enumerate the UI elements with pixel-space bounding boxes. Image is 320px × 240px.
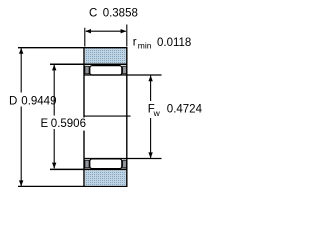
svg-text:w: w xyxy=(153,108,161,118)
svg-text:min: min xyxy=(138,40,152,50)
svg-text:E: E xyxy=(41,118,49,130)
cage section bottom-right xyxy=(123,160,127,168)
raceway top line with E extension xyxy=(50,63,127,65)
needle roller bottom xyxy=(90,159,122,169)
Fw arrow up xyxy=(148,75,152,81)
D dimension line lower segment xyxy=(20,107,22,187)
bore top line with Fw extension xyxy=(84,74,162,76)
svg-text:0.9449: 0.9449 xyxy=(21,96,56,108)
Fw dimension line upper segment xyxy=(150,76,152,101)
needle roller top xyxy=(90,66,122,75)
bore bottom line with Fw extension xyxy=(84,158,162,160)
outer ring top section blue fill xyxy=(85,49,126,64)
C arrow right xyxy=(121,29,127,33)
D dimension line upper segment xyxy=(20,48,22,92)
svg-text:r: r xyxy=(133,36,137,48)
outer ring OD top line with D extension xyxy=(18,47,128,49)
bearing outer ring left face (upper segment, broken by E label) xyxy=(83,48,85,118)
E dimension line lower segment xyxy=(53,129,55,168)
E arrow down xyxy=(52,163,56,169)
E arrow up xyxy=(52,65,56,71)
cage section top-right xyxy=(123,66,127,74)
svg-text:0.4724: 0.4724 xyxy=(167,103,203,115)
Fw dimension line lower segment xyxy=(150,118,152,158)
svg-text:D: D xyxy=(9,96,17,108)
svg-text:C: C xyxy=(89,8,97,20)
C dimension line xyxy=(86,30,126,32)
svg-text:0.3858: 0.3858 xyxy=(103,8,138,20)
C extension line left xyxy=(84,28,86,47)
bearing outer ring right face xyxy=(126,48,128,187)
outer ring bottom section blue fill xyxy=(85,170,126,185)
C extension line right xyxy=(126,25,128,47)
D arrow up xyxy=(19,48,23,54)
outer ring OD bottom line with D extension xyxy=(18,185,128,187)
D arrow down xyxy=(19,180,23,186)
C arrow left xyxy=(85,29,91,33)
svg-text:0.5906: 0.5906 xyxy=(51,118,86,130)
svg-text:0.0118: 0.0118 xyxy=(157,37,191,49)
cage section bottom-left xyxy=(85,160,89,168)
axis line xyxy=(85,115,131,117)
E dimension line upper segment xyxy=(53,65,55,116)
bearing outer ring left face (lower segment) xyxy=(83,131,85,187)
Fw arrow down xyxy=(148,152,152,158)
raceway bottom line with E extension xyxy=(50,168,127,170)
cage section top-left xyxy=(85,66,89,74)
